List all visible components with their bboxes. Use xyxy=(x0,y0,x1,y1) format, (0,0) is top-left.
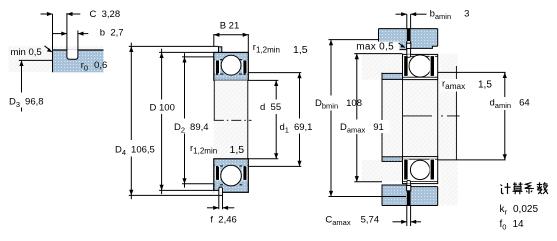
svg-text:d 55: d 55 xyxy=(260,102,281,113)
svg-text:max 0,5: max 0,5 xyxy=(356,41,394,52)
svg-text:D4106,5: D4106,5 xyxy=(115,145,155,158)
svg-text:min 0,5: min 0,5 xyxy=(11,47,42,58)
svg-text:D289,4: D289,4 xyxy=(174,122,209,135)
svg-text:1,5: 1,5 xyxy=(478,80,492,91)
svg-text:D 100: D 100 xyxy=(150,103,175,114)
svg-text:D396,8: D396,8 xyxy=(9,96,44,109)
svg-text:1,5: 1,5 xyxy=(230,144,245,156)
svg-text:f 2,46: f 2,46 xyxy=(210,214,236,225)
svg-text:B 21: B 21 xyxy=(220,20,240,31)
svg-text:d169,1: d169,1 xyxy=(280,122,313,135)
svg-text:1,5: 1,5 xyxy=(293,44,308,56)
svg-text:b 2,7: b 2,7 xyxy=(100,28,124,39)
svg-text:C 3,28: C 3,28 xyxy=(90,9,121,20)
